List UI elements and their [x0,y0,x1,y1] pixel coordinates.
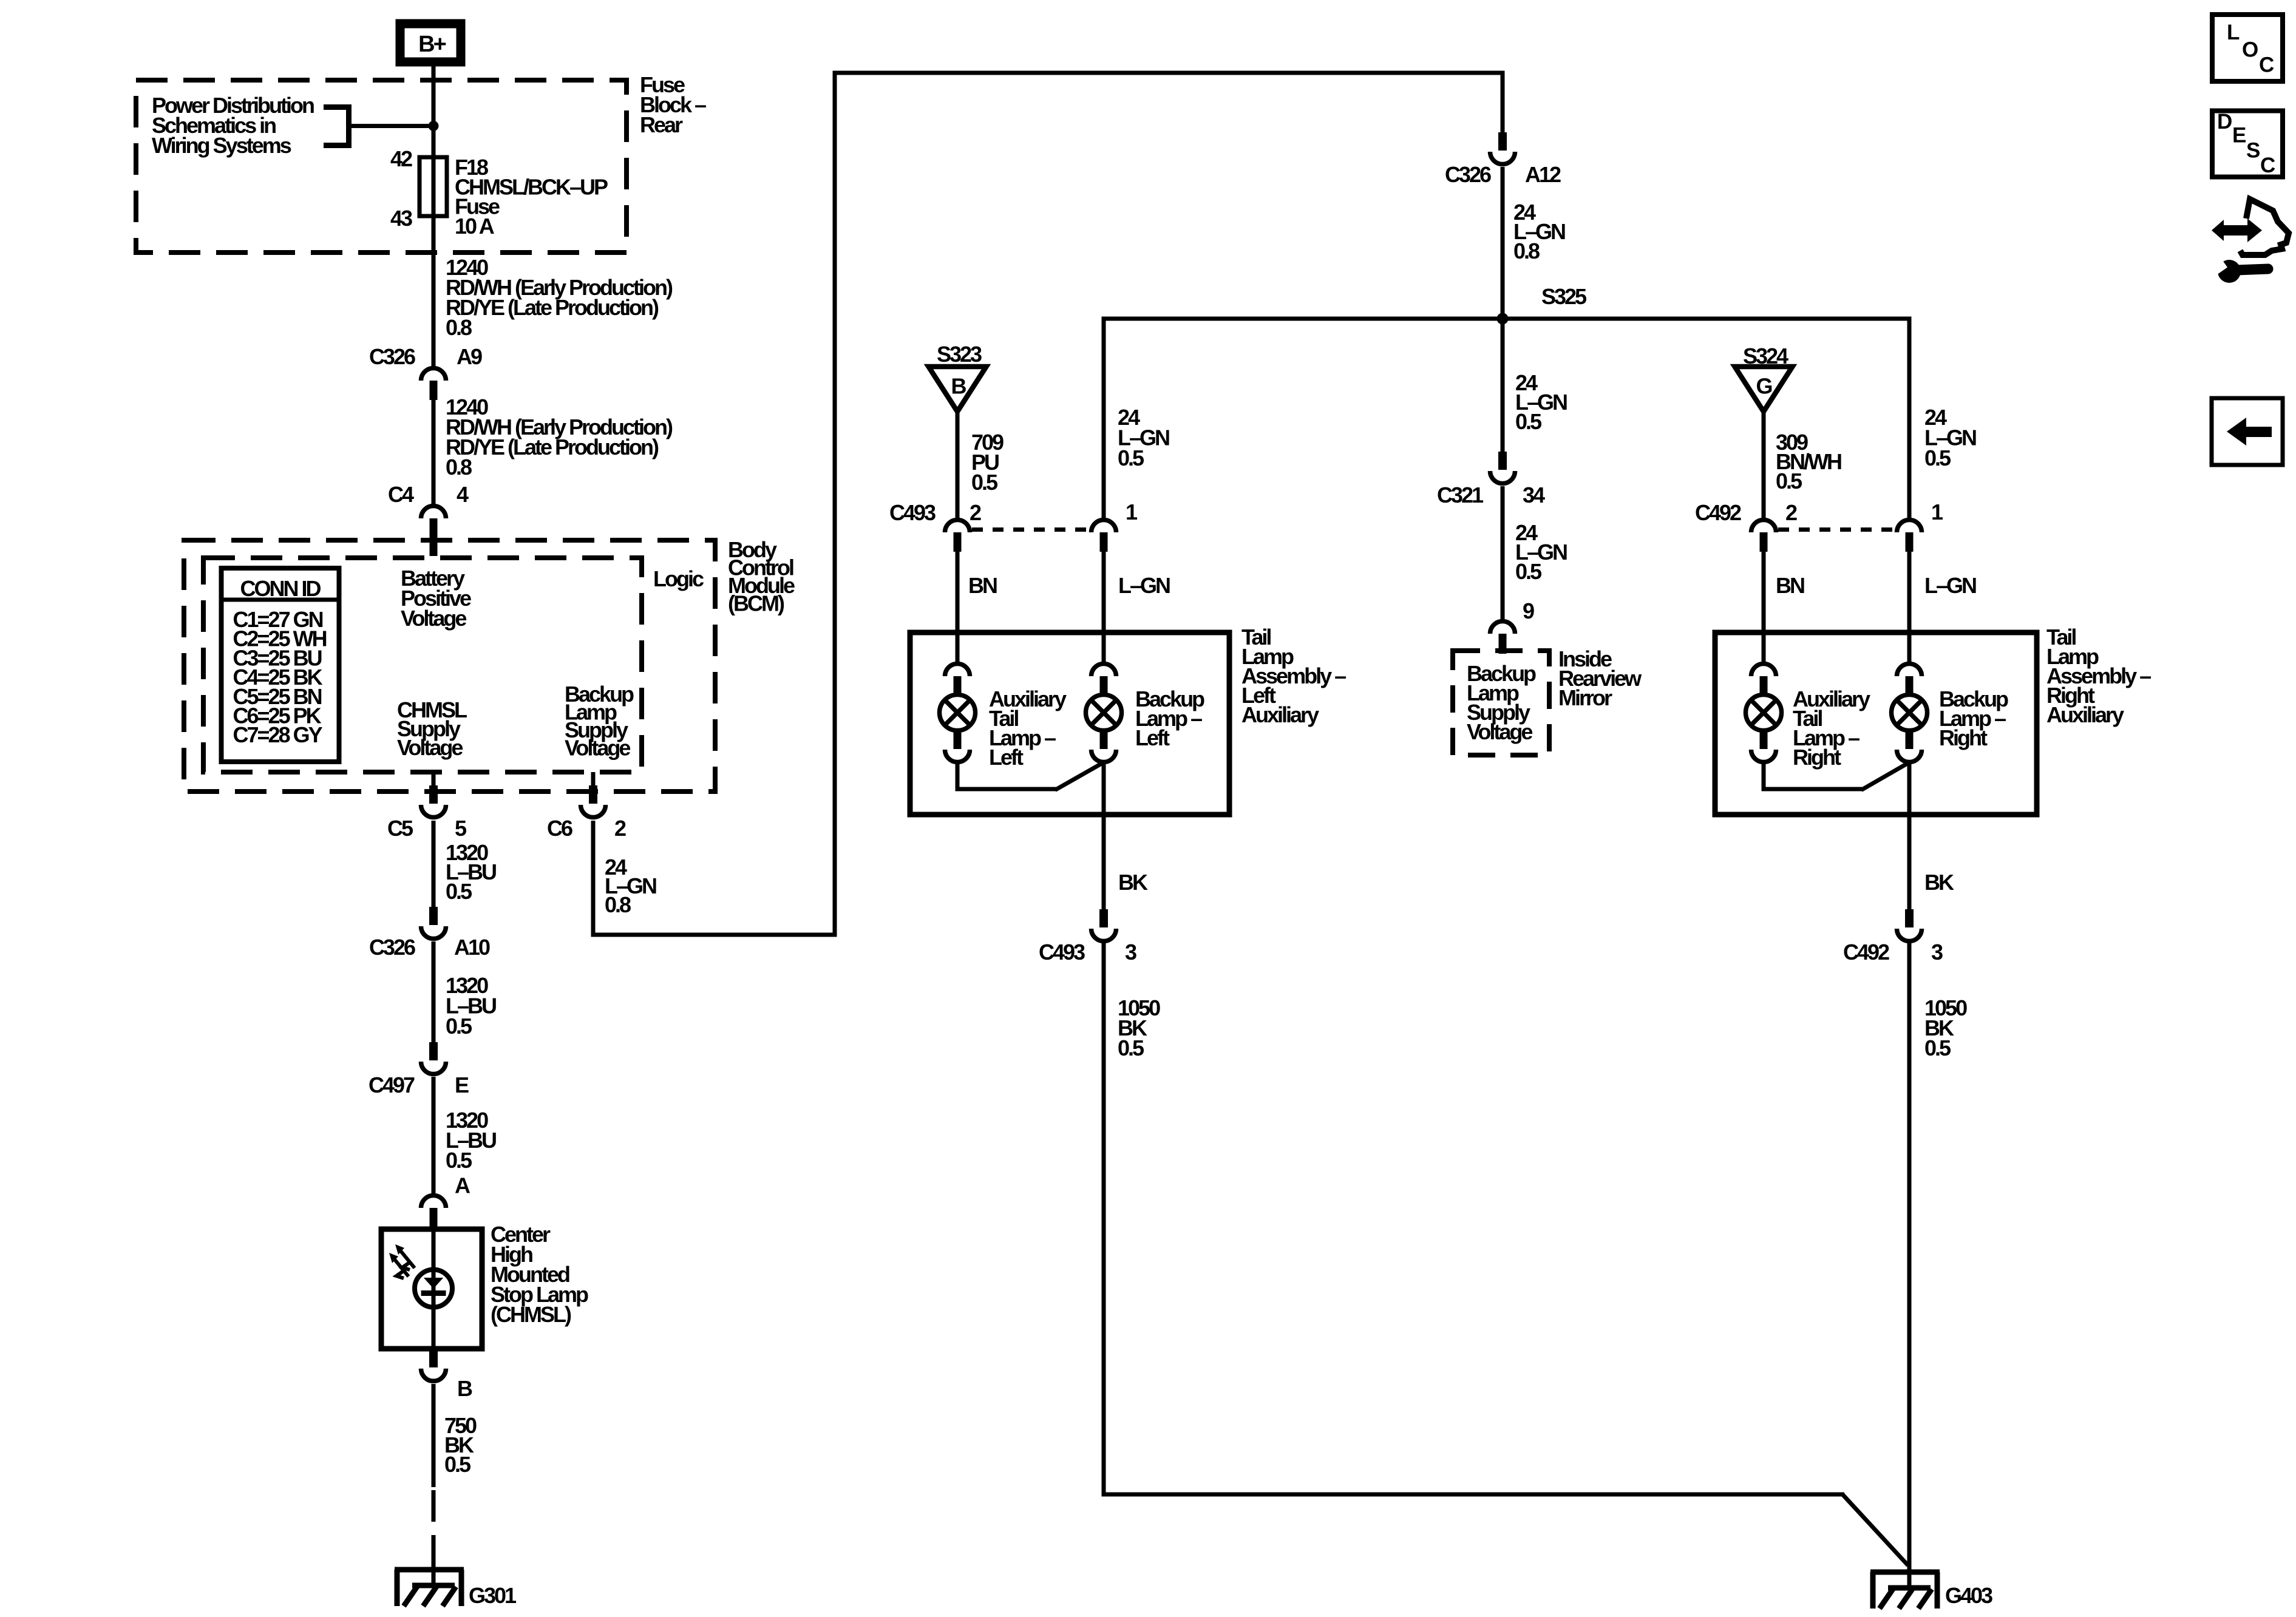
svg-text:(CHMSL): (CHMSL) [491,1302,571,1327]
svg-text:C: C [2260,154,2275,177]
svg-text:C321: C321 [1437,483,1484,507]
svg-text:Auxiliary: Auxiliary [1241,702,1319,727]
svg-text:L: L [2227,21,2240,44]
svg-text:C326: C326 [1445,162,1491,187]
svg-text:Right: Right [1939,725,1988,750]
svg-text:A9: A9 [457,344,482,369]
svg-text:Voltage: Voltage [397,735,463,760]
svg-text:O: O [2242,38,2258,62]
svg-text:0.5: 0.5 [1776,469,1802,493]
svg-text:Wiring Systems: Wiring Systems [152,133,291,158]
svg-text:4: 4 [457,482,469,507]
svg-text:10 A: 10 A [455,214,495,239]
svg-text:C493: C493 [1039,940,1085,964]
svg-text:0.8: 0.8 [605,892,631,917]
svg-text:(BCM): (BCM) [728,591,784,616]
svg-text:1: 1 [1126,500,1138,524]
svg-text:S: S [2246,139,2260,163]
svg-text:42: 42 [390,146,412,171]
svg-text:BK: BK [1118,870,1148,895]
svg-text:RD/YE (Late Production): RD/YE (Late Production) [446,295,659,320]
svg-text:C497: C497 [369,1073,415,1097]
svg-text:A: A [455,1173,470,1198]
svg-text:1: 1 [1931,500,1943,524]
svg-text:0.5: 0.5 [971,470,998,495]
svg-text:C326: C326 [369,935,415,960]
svg-text:Mirror: Mirror [1558,685,1612,710]
svg-text:Voltage: Voltage [1467,719,1532,744]
svg-text:0.8: 0.8 [1513,239,1540,263]
svg-text:C492: C492 [1843,940,1889,964]
svg-text:0.5: 0.5 [1924,1036,1951,1060]
svg-text:BN: BN [1776,573,1804,598]
svg-text:C492: C492 [1695,500,1741,525]
svg-text:RD/YE (Late Production): RD/YE (Late Production) [446,435,659,459]
svg-text:0.8: 0.8 [446,315,472,340]
svg-text:L–GN: L–GN [1118,573,1170,598]
svg-text:2: 2 [1785,500,1797,525]
svg-text:Voltage: Voltage [401,606,466,631]
svg-text:Left: Left [1135,725,1170,750]
svg-text:0.5: 0.5 [444,1452,471,1477]
svg-text:C: C [2259,53,2274,77]
svg-text:C326: C326 [369,344,415,369]
svg-text:0.8: 0.8 [446,455,472,480]
svg-text:BN: BN [968,573,997,598]
svg-text:L–GN: L–GN [1924,573,1976,598]
svg-text:E: E [455,1073,469,1097]
svg-text:0.5: 0.5 [1924,446,1951,470]
svg-text:Rear: Rear [640,112,683,137]
svg-text:BK: BK [1924,870,1954,895]
svg-text:C493: C493 [889,500,936,525]
svg-text:Auxiliary: Auxiliary [2046,702,2124,727]
svg-text:3: 3 [1931,940,1943,964]
svg-text:G: G [1756,374,1771,399]
svg-text:0.5: 0.5 [446,1148,472,1173]
svg-text:Logic: Logic [653,566,704,591]
svg-text:B+: B+ [418,32,446,57]
svg-text:B: B [951,374,966,399]
svg-text:A12: A12 [1525,162,1561,187]
svg-text:C4: C4 [388,482,414,507]
svg-text:2: 2 [970,500,981,525]
svg-text:5: 5 [455,816,467,841]
svg-text:0.5: 0.5 [1515,559,1542,584]
svg-text:G403: G403 [1945,1583,1992,1608]
svg-text:C5: C5 [387,816,413,841]
svg-text:0.5: 0.5 [1515,409,1542,434]
svg-text:2: 2 [614,816,626,841]
svg-text:Right: Right [1793,745,1841,770]
svg-text:C6: C6 [547,816,572,841]
svg-text:CONN ID: CONN ID [240,576,321,601]
svg-text:G301: G301 [469,1583,517,1608]
svg-text:0.5: 0.5 [446,1014,472,1039]
svg-text:0.5: 0.5 [1118,446,1144,470]
svg-text:0.5: 0.5 [446,879,472,904]
svg-text:Voltage: Voltage [565,736,630,761]
svg-text:0.5: 0.5 [1118,1036,1144,1060]
svg-text:9: 9 [1523,598,1534,623]
svg-text:D: D [2217,110,2232,134]
svg-text:S325: S325 [1541,284,1587,309]
svg-text:C7=28 GY: C7=28 GY [233,722,323,747]
svg-text:34: 34 [1523,483,1545,507]
svg-text:B: B [457,1376,472,1401]
svg-text:E: E [2232,124,2246,147]
svg-text:43: 43 [390,206,412,231]
svg-text:3: 3 [1125,940,1136,964]
svg-text:S323: S323 [937,342,982,367]
svg-text:Left: Left [989,745,1024,770]
svg-text:A10: A10 [454,935,490,960]
